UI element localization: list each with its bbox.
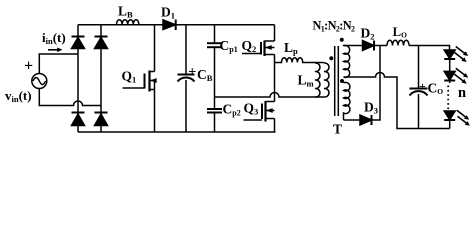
AC source vin bbox=[32, 74, 47, 89]
transformer primary winding bbox=[324, 63, 329, 97]
diode bridge top-right bbox=[95, 37, 108, 49]
diode bridge bottom-right bbox=[95, 113, 108, 126]
primary polarity dot bbox=[329, 56, 333, 60]
secondary top polarity dot bbox=[340, 38, 344, 42]
LED 2 bbox=[444, 71, 455, 80]
wire secondary top to D2 bbox=[344, 45, 363, 48]
capacitor Cp1 bbox=[207, 25, 222, 97]
svg-text:LO: LO bbox=[393, 25, 407, 40]
svg-text:n: n bbox=[458, 85, 466, 101]
svg-text:Cp2: Cp2 bbox=[223, 102, 241, 118]
secondary center polarity dot bbox=[340, 79, 344, 83]
inductor LB bbox=[117, 20, 139, 25]
transformer core bbox=[334, 46, 336, 116]
transistor Q3 bbox=[244, 63, 275, 133]
svg-text:Lm: Lm bbox=[298, 72, 314, 88]
capacitor Cp2 bbox=[207, 97, 222, 132]
wire Cp midpoint to transformer with hop over Q3 drain riser bbox=[215, 93, 325, 98]
diode D3 bbox=[360, 115, 372, 125]
transistor Q1 bbox=[123, 25, 157, 132]
svg-text:Lp: Lp bbox=[284, 40, 298, 56]
svg-text:LB: LB bbox=[118, 4, 133, 20]
svg-text:T: T bbox=[333, 122, 342, 137]
inductor LO bbox=[387, 40, 409, 45]
secondary top winding bbox=[344, 46, 350, 78]
inductor Lm (vertical loop winding) bbox=[315, 63, 320, 97]
diode D2 bbox=[363, 41, 375, 51]
svg-text:iin(t): iin(t) bbox=[42, 30, 66, 46]
wire AC top lead to bridge bbox=[39, 54, 78, 74]
LED 1 bbox=[444, 50, 455, 59]
wire bridge left branch bbox=[77, 25, 79, 132]
inductor Lp bbox=[275, 58, 325, 63]
svg-text:CO: CO bbox=[428, 81, 444, 97]
svg-text:D1: D1 bbox=[161, 5, 175, 21]
LED 3 bbox=[444, 111, 455, 120]
svg-text:CB: CB bbox=[197, 67, 213, 83]
wire AC bottom lead with hop over left bridge branch bbox=[39, 89, 101, 106]
diode bridge bottom-left bbox=[72, 113, 85, 126]
capacitor CO bbox=[410, 46, 428, 129]
svg-text:Q1: Q1 bbox=[122, 69, 137, 85]
svg-text:+: + bbox=[419, 79, 426, 93]
svg-text:Cp1: Cp1 bbox=[220, 38, 238, 54]
wire LO to LED top bbox=[409, 46, 450, 51]
wire top rail bbox=[78, 24, 275, 26]
svg-text:D3: D3 bbox=[364, 99, 378, 115]
wire LED2 stub bbox=[449, 81, 451, 84]
svg-text:N1:N2:N2: N1:N2:N2 bbox=[313, 18, 356, 33]
diode D1 bbox=[163, 20, 176, 31]
capacitor CB bbox=[178, 25, 195, 132]
transistor Q2 bbox=[242, 25, 275, 63]
svg-text:vin(t): vin(t) bbox=[5, 88, 32, 104]
svg-text:+: + bbox=[24, 58, 33, 75]
svg-text:+: + bbox=[188, 65, 196, 80]
wire D2 to LO bbox=[374, 45, 387, 47]
wire bottom rail bbox=[78, 131, 276, 133]
svg-text:D2: D2 bbox=[361, 26, 375, 42]
diode bridge top-left bbox=[72, 37, 85, 49]
wire LED1 to LED2 bbox=[449, 59, 451, 71]
wire D3 riser up to D2 cathode node bbox=[372, 46, 381, 121]
LED1 emission arrows bbox=[455, 47, 469, 63]
LED2 emission arrows bbox=[455, 68, 469, 84]
wire bridge right branch bbox=[100, 25, 102, 132]
wire center tap with hop over riser, down to output return bbox=[344, 73, 450, 129]
wire secondary bottom to D3 bbox=[344, 119, 361, 121]
svg-text:Q2: Q2 bbox=[242, 38, 257, 54]
secondary bottom winding bbox=[344, 82, 350, 120]
current arrow iin bbox=[48, 48, 63, 53]
LED3 emission arrows bbox=[457, 110, 470, 126]
svg-text:Q3: Q3 bbox=[244, 100, 259, 116]
dotted wire continuation bbox=[447, 86, 449, 110]
wire LED3 to output return bbox=[449, 120, 451, 129]
